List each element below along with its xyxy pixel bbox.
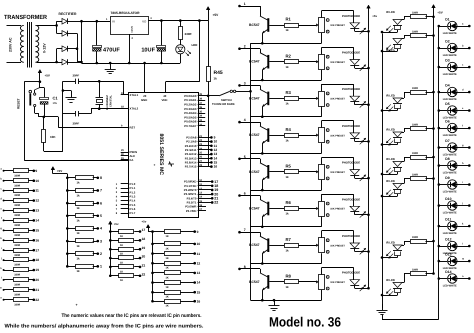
transformer T1 (7, 25, 22, 27)
svg-text:D13: D13 (445, 252, 451, 256)
svg-text:330R: 330R (14, 194, 20, 197)
svg-text:8: 8 (100, 176, 102, 180)
ground rail (82, 63, 181, 65)
LED-WHITE D11 (438, 225, 441, 228)
svg-text:11: 11 (35, 189, 39, 193)
svg-text:1k: 1k (286, 248, 290, 252)
svg-text:6: 6 (100, 201, 102, 205)
resistor R5 (269, 171, 284, 173)
resistor 1k pullup A6 (66, 240, 69, 243)
wire LED D1 anode (456, 26, 469, 28)
wire node to P2.7 (208, 96, 210, 167)
svg-text:330R: 330R (412, 87, 418, 90)
ground symbol IR LEDs (382, 304, 384, 310)
svg-text:IR LED: IR LED (386, 11, 395, 14)
pin P0.6/AD6 (198, 121, 206, 123)
svg-text:330R: 330R (14, 214, 20, 217)
pin P0.2/AD2 (198, 104, 206, 106)
svg-text:D14: D14 (445, 270, 451, 274)
svg-text:17: 17 (35, 248, 39, 252)
wire emitter rail (250, 43, 252, 300)
svg-text:330R: 330R (14, 174, 20, 177)
svg-text:SWITCH: SWITCH (221, 99, 232, 102)
pin P0.5/AD5 (198, 117, 206, 119)
svg-text:LED-WHITE: LED-WHITE (443, 172, 457, 175)
resistor 1K pullup B15 (151, 291, 154, 294)
resistor 1K pullup B16 (151, 300, 154, 303)
capacitor 10UF (161, 21, 163, 46)
LED-WHITE D7 (438, 146, 441, 149)
pin P1.3 (121, 196, 129, 198)
+5V arrow group A (51, 167, 55, 170)
svg-text:IR LED: IR LED (386, 279, 395, 282)
svg-text:10K PRESET: 10K PRESET (330, 98, 345, 101)
pin P2.2/A10 (198, 145, 211, 147)
wire preset top to photodiode 5 (321, 158, 323, 165)
svg-text:1: 1 (100, 265, 102, 269)
switch SW2 to dim or dark (208, 95, 219, 97)
wire photodiode to +5V bus 2 (354, 65, 356, 68)
svg-text:0-12V: 0-12V (43, 43, 47, 53)
svg-text:1k: 1k (286, 102, 290, 106)
svg-text:1K: 1K (120, 244, 123, 247)
svg-text:PHOTODIODE: PHOTODIODE (342, 198, 360, 201)
wire IR LED anode 4 (397, 143, 399, 145)
wire LED D6 anode (456, 128, 469, 130)
wire preset bottom 8 (321, 290, 323, 300)
svg-text:330R: 330R (185, 32, 193, 36)
resistor 100R IR 7 (402, 245, 404, 247)
wire LED D2 anode (456, 48, 469, 50)
svg-text:30PF: 30PF (73, 74, 80, 78)
pin P2.1/A9 (198, 141, 211, 143)
svg-text:1k: 1k (286, 138, 290, 142)
wire preset top to photodiode 2 (321, 47, 323, 54)
resistor 1K pullup C22 (109, 274, 112, 277)
wire LED D14 anode (456, 278, 469, 280)
svg-text:D10: D10 (445, 197, 451, 201)
resistor R7 (269, 245, 284, 247)
wire XTAL2 net (98, 107, 101, 110)
svg-text:9: 9 (35, 169, 37, 173)
pin P2.0/A8 (198, 137, 211, 139)
wire IR LED anode 6 (397, 194, 399, 196)
svg-text:19: 19 (35, 268, 39, 272)
node collector wire 5 (238, 158, 241, 161)
svg-text:330R: 330R (14, 224, 20, 227)
svg-text:11.0592MHZ: 11.0592MHZ (106, 95, 109, 110)
wire collector stage 5 (240, 158, 261, 160)
resistor R3 (269, 98, 284, 100)
svg-text:LED-WHITE: LED-WHITE (443, 212, 457, 215)
capacitor 30PF bottom (75, 111, 77, 116)
capacitor C1 10u (40, 87, 44, 89)
svg-text:IR LED: IR LED (386, 158, 395, 161)
node collector wire 4 (238, 121, 241, 124)
node collector wire 6 (238, 194, 241, 197)
svg-text:1k: 1k (77, 206, 81, 210)
svg-text:10: 10 (197, 242, 201, 246)
svg-text:21: 21 (35, 288, 39, 292)
svg-text:10K PRESET: 10K PRESET (330, 244, 345, 247)
pin P3.1/TXD (198, 185, 211, 187)
preset VR3 10K (319, 92, 325, 107)
svg-text:C1: C1 (53, 96, 59, 101)
svg-text:+: + (154, 163, 156, 167)
wire DC plus rail to regulator (82, 21, 111, 23)
resistor 1K pullup B11 (151, 252, 154, 255)
transistor Q7 BC547 (267, 238, 269, 252)
svg-text:R2: R2 (286, 53, 292, 58)
svg-text:10K PRESET: 10K PRESET (330, 61, 345, 64)
regulator U2 7805 (111, 17, 149, 35)
resistor 1k pullup A8 (66, 265, 69, 268)
pin XTAL2 (121, 108, 129, 110)
svg-text:330R: 330R (412, 236, 418, 239)
svg-text:VDD: VDD (162, 98, 168, 102)
svg-text:LED-WHITE: LED-WHITE (443, 32, 457, 35)
svg-text:10K PRESET: 10K PRESET (330, 208, 345, 211)
LED-WHITE D10 (438, 204, 441, 207)
transistor Q5 BC547 (267, 165, 269, 179)
svg-text:22: 22 (214, 201, 218, 205)
wire IR LED anode 8 (397, 293, 399, 295)
svg-text:10UF: 10UF (141, 48, 155, 54)
svg-text:1K: 1K (120, 235, 123, 238)
transistor Q1 BC547 (267, 18, 269, 32)
svg-text:1K: 1K (166, 235, 169, 238)
svg-text:13: 13 (35, 209, 39, 213)
svg-text:PHOTODIODE: PHOTODIODE (342, 15, 360, 18)
wire MCU GND to ground rail (144, 63, 146, 92)
svg-text:1K: 1K (120, 261, 123, 264)
wire bottom link (382, 315, 384, 320)
svg-text:LED-WHITE: LED-WHITE (443, 98, 457, 101)
resistor 330R series 3 (3, 190, 5, 192)
wire rectifier left vertical A (56, 21, 58, 33)
ground symbol transistors (273, 299, 276, 302)
preset VR2 10K (319, 55, 325, 70)
svg-text:D7: D7 (445, 139, 449, 143)
pin P0.7/AD7 (198, 125, 206, 127)
wire preset bottom 7 (321, 253, 323, 263)
svg-text:10: 10 (35, 179, 39, 183)
svg-text:2: 2 (100, 252, 102, 256)
resistor 330R series 9 (3, 249, 5, 251)
wire LED-WHITE cathode bus (438, 26, 440, 319)
resistor 1K pullup B12 (151, 262, 154, 265)
pin P3.3/INT1 (198, 194, 211, 196)
svg-text:13: 13 (197, 271, 201, 275)
wire rectifier mid vertical minus (72, 33, 77, 35)
svg-text:TRANSFORMER: TRANSFORMER (4, 14, 48, 21)
preset VR8 10K (319, 275, 325, 290)
svg-text:BC547: BC547 (249, 23, 260, 27)
resistor 330R series 14 (3, 299, 5, 301)
resistor 330R series 6 (3, 219, 5, 221)
svg-text:D4: D4 (445, 83, 449, 87)
svg-text:15: 15 (197, 290, 201, 294)
svg-text:14: 14 (35, 219, 39, 223)
svg-text:+: + (76, 303, 78, 307)
wire rectifier right vertical plus (72, 21, 82, 23)
svg-text:20: 20 (35, 278, 39, 282)
svg-text:LED-WHITE: LED-WHITE (443, 73, 457, 76)
LED-WHITE D13 (438, 260, 441, 263)
svg-text:230V AC: 230V AC (9, 37, 13, 52)
svg-text:D5: D5 (445, 102, 449, 106)
svg-text:330R: 330R (412, 152, 418, 155)
svg-text:7: 7 (244, 228, 246, 232)
svg-text:+5V: +5V (213, 13, 220, 17)
svg-text:3: 3 (100, 239, 102, 243)
svg-text:BC547: BC547 (249, 60, 260, 64)
svg-text:5: 5 (100, 214, 102, 218)
resistor 1K pullup C17 (109, 230, 112, 233)
svg-text:6: 6 (244, 192, 246, 196)
svg-text:D3: D3 (445, 58, 449, 62)
svg-text:330R: 330R (412, 12, 418, 15)
ground symbol power (109, 62, 112, 65)
svg-text:CRYSTAL: CRYSTAL (110, 95, 113, 107)
wire base to preset 5 (299, 171, 317, 173)
svg-text:330R: 330R (14, 293, 20, 296)
svg-text:BC547: BC547 (249, 207, 260, 211)
wire preset bottom 6 (321, 217, 323, 227)
resistor 1K pullup B13 (151, 272, 154, 275)
svg-text:P2.7/A15: P2.7/A15 (185, 165, 197, 169)
resistor 1k pullup A2 (66, 189, 69, 192)
node collector wire 7 (238, 231, 241, 234)
wire LED D12 anode (456, 246, 469, 248)
svg-text:1k: 1k (286, 28, 290, 32)
resistor R8 (269, 281, 284, 283)
wire collector stage 8 (240, 268, 261, 270)
wire preset bottom 5 (321, 180, 323, 190)
wire preset top to photodiode 7 (321, 231, 323, 238)
svg-text:330R: 330R (412, 268, 418, 271)
svg-text:PHOTODIODE: PHOTODIODE (342, 235, 360, 238)
wire IR LED anode 2 (397, 49, 399, 51)
wire photodiode to +5V bus 8 (354, 285, 356, 288)
svg-text:4: 4 (100, 227, 102, 231)
pin P2.3/A11 (198, 149, 211, 151)
wire collector stage 2 (240, 48, 261, 50)
svg-text:1k: 1k (77, 193, 81, 197)
svg-text:10K PRESET: 10K PRESET (330, 134, 345, 137)
wire collector stage 3 (240, 85, 261, 87)
svg-text:12: 12 (35, 199, 39, 203)
svg-text:12: 12 (197, 261, 201, 265)
pin P0.1/AD1 (198, 100, 206, 102)
transistor Q3 BC547 (267, 92, 269, 106)
ground symbol crystal (62, 89, 65, 92)
svg-text:IR LED: IR LED (386, 180, 395, 183)
svg-text:P1.7: P1.7 (130, 211, 136, 215)
+5V arrow group C (109, 221, 113, 224)
wire LED D13 anode (456, 261, 469, 263)
svg-text:EA: EA (130, 158, 134, 162)
svg-text:1k: 1k (77, 244, 81, 248)
resistor 100R IR 6 (402, 183, 404, 185)
svg-text:RECTIFIER: RECTIFIER (59, 12, 77, 16)
wire photodiode to +5V bus 7 (354, 249, 356, 252)
svg-text:330R: 330R (14, 234, 20, 237)
resistor 100R IR 1 (402, 19, 404, 21)
svg-text:7: 7 (100, 189, 102, 193)
svg-text:+5V: +5V (45, 74, 50, 78)
svg-text:1K: 1K (120, 270, 123, 273)
svg-text:LED-WHITE: LED-WHITE (443, 232, 457, 235)
svg-text:R7: R7 (286, 237, 292, 242)
svg-text:7805-REGULATOR: 7805-REGULATOR (111, 11, 141, 15)
pin P3.0/RXD (198, 181, 211, 183)
wire group B feed (152, 232, 154, 302)
svg-text:BC547: BC547 (249, 133, 260, 137)
svg-text:21: 21 (142, 264, 146, 268)
wire preset bottom 3 (321, 106, 323, 116)
resistor 330R series 5 (3, 209, 5, 211)
wire photodiode +5V bus (368, 30, 370, 288)
resistor 1k pullup A3 (66, 202, 69, 205)
wire photodiode to +5V bus 3 (354, 102, 356, 105)
resistor 1k pullup A1 (66, 177, 69, 180)
resistor 1K pullup B9 (151, 230, 154, 233)
pin P1.0 (121, 183, 129, 185)
resistor 1k pullup A7 (66, 252, 69, 255)
resistor 1K pullup C18 (109, 239, 112, 242)
svg-text:1k: 1k (77, 257, 81, 261)
svg-text:+5V: +5V (57, 169, 62, 173)
svg-text:GND: GND (130, 26, 134, 32)
transistor Q6 BC547 (267, 202, 269, 216)
svg-text:1K: 1K (166, 286, 169, 289)
wire preset top to photodiode 6 (321, 194, 323, 201)
pin P2.6/A14 (198, 162, 211, 164)
svg-text:PHOTODIODE: PHOTODIODE (342, 272, 360, 275)
preset VR1 10K (319, 18, 325, 33)
node collector wire 2 (238, 47, 241, 50)
wire +5V rail from VO (148, 20, 208, 22)
wire emitter stage 8 (262, 286, 267, 290)
pin P2.4/A12 (198, 154, 211, 156)
pin P0.3/AD3 (198, 108, 206, 110)
svg-text:LED-WHITE: LED-WHITE (443, 285, 457, 288)
resistor 100R IR 8 (402, 282, 404, 284)
svg-text:TO DIM OR DARK: TO DIM OR DARK (212, 103, 235, 106)
resistor 100R IR 4 (402, 132, 404, 134)
crystal X1 11.0592MHZ (99, 81, 101, 97)
+5V arrow group B (146, 225, 150, 228)
svg-text:Model no. 36: Model no. 36 (269, 315, 341, 330)
resistor R6 (269, 208, 284, 210)
svg-text:330R: 330R (14, 264, 20, 267)
pin P2.5/A13 (198, 158, 211, 160)
resistor 330R series 4 (3, 200, 5, 202)
svg-text:15: 15 (35, 228, 39, 232)
wire rectifier left vertical B (56, 49, 58, 62)
wire VDD feed (199, 21, 201, 82)
resistor 1k pullup A5 (66, 227, 69, 230)
svg-text:1K: 1K (120, 279, 123, 282)
wire preset top to photodiode 8 (321, 268, 323, 275)
svg-text:1k: 1k (77, 181, 81, 185)
pin P3.6/WR (198, 206, 206, 208)
wire group A feed (67, 174, 69, 266)
svg-text:XTAL1: XTAL1 (130, 93, 139, 97)
LED-WHITE D2 (438, 47, 441, 50)
svg-text:9: 9 (197, 230, 199, 234)
svg-text:1k: 1k (286, 212, 290, 216)
wire preset top to photodiode 3 (321, 84, 323, 91)
svg-text:1K: 1K (166, 305, 169, 308)
wire LED D10 anode (456, 205, 469, 207)
wire IR LED ground bus (382, 34, 384, 309)
wire preset bottom 2 (321, 70, 323, 80)
resistor R1 (269, 25, 284, 27)
svg-text:1k: 1k (286, 285, 290, 289)
node collector wire 8 (238, 268, 241, 271)
svg-text:m: m (462, 257, 464, 260)
svg-text:LED-WHITE: LED-WHITE (443, 54, 457, 57)
svg-text:The numeric values near the IC: The numeric values near the IC pins are … (62, 313, 203, 319)
wire collector stage 6 (240, 195, 261, 197)
svg-text:30PF: 30PF (73, 122, 80, 126)
svg-text:16: 16 (197, 299, 201, 303)
svg-text:10K: 10K (50, 135, 56, 139)
svg-text:10K PRESET: 10K PRESET (330, 171, 345, 174)
svg-text:D11: D11 (445, 217, 451, 221)
svg-text:VO: VO (142, 19, 147, 23)
svg-text:330R: 330R (412, 173, 418, 176)
svg-text:330R: 330R (14, 204, 20, 207)
wire preset bottom 1 (321, 33, 323, 43)
svg-text:RESET: RESET (17, 98, 21, 109)
svg-text:8051 SERIES MC: 8051 SERIES MC (158, 134, 164, 176)
pin P1.5 (121, 204, 129, 206)
pin P2.7/A15 (198, 166, 211, 168)
svg-text:330R: 330R (14, 284, 20, 287)
resistor 330R series 13 (3, 289, 5, 291)
capacitor 470UF (96, 21, 98, 45)
pin P3.4/T0 (198, 198, 211, 200)
LED-WHITE D6 (438, 127, 441, 130)
preset VR6 10K (319, 202, 325, 217)
LED-WHITE D12 (438, 245, 441, 248)
wire base to preset 2 (299, 61, 317, 63)
svg-text:D1: D1 (445, 17, 449, 21)
resistor R2 (269, 61, 284, 63)
pin RST (121, 127, 129, 129)
transistor Q8 BC547 (267, 275, 269, 289)
wire LED D4 anode (456, 92, 469, 94)
resistor 1K pullup C19 (109, 248, 112, 251)
wire photodiode to +5V bus 6 (354, 212, 356, 215)
svg-text:1K: 1K (166, 276, 169, 279)
wire IR LED anode 5 (397, 172, 399, 174)
wire IR LED anode 7 (397, 256, 399, 258)
svg-text:330R: 330R (412, 123, 418, 126)
resistor 100R IR 5 (402, 161, 404, 163)
svg-text:VI: VI (112, 19, 115, 23)
wire preset bottom 4 (321, 143, 323, 153)
wire photodiode to +5V bus 5 (354, 175, 356, 178)
svg-text:IR LED: IR LED (386, 129, 395, 132)
svg-text:20: 20 (142, 255, 146, 259)
svg-text:19: 19 (142, 246, 146, 250)
+5V arrow IR bus (432, 5, 436, 8)
svg-text:3: 3 (244, 81, 246, 85)
